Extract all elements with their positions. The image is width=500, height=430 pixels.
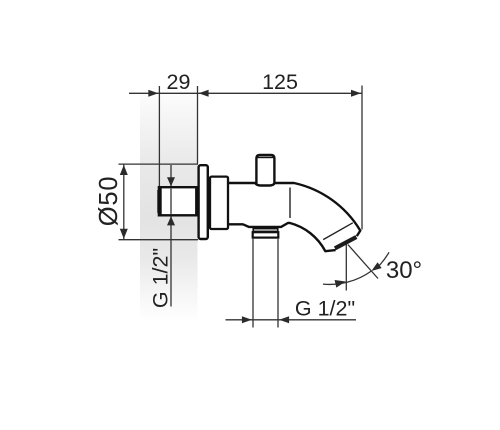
svg-text:G 1/2": G 1/2" [149,248,173,308]
svg-text:125: 125 [262,70,298,94]
svg-text:G 1/2": G 1/2" [295,297,355,321]
svg-text:30°: 30° [386,257,422,284]
svg-text:29: 29 [167,70,191,94]
svg-text:Ø50: Ø50 [95,176,123,227]
